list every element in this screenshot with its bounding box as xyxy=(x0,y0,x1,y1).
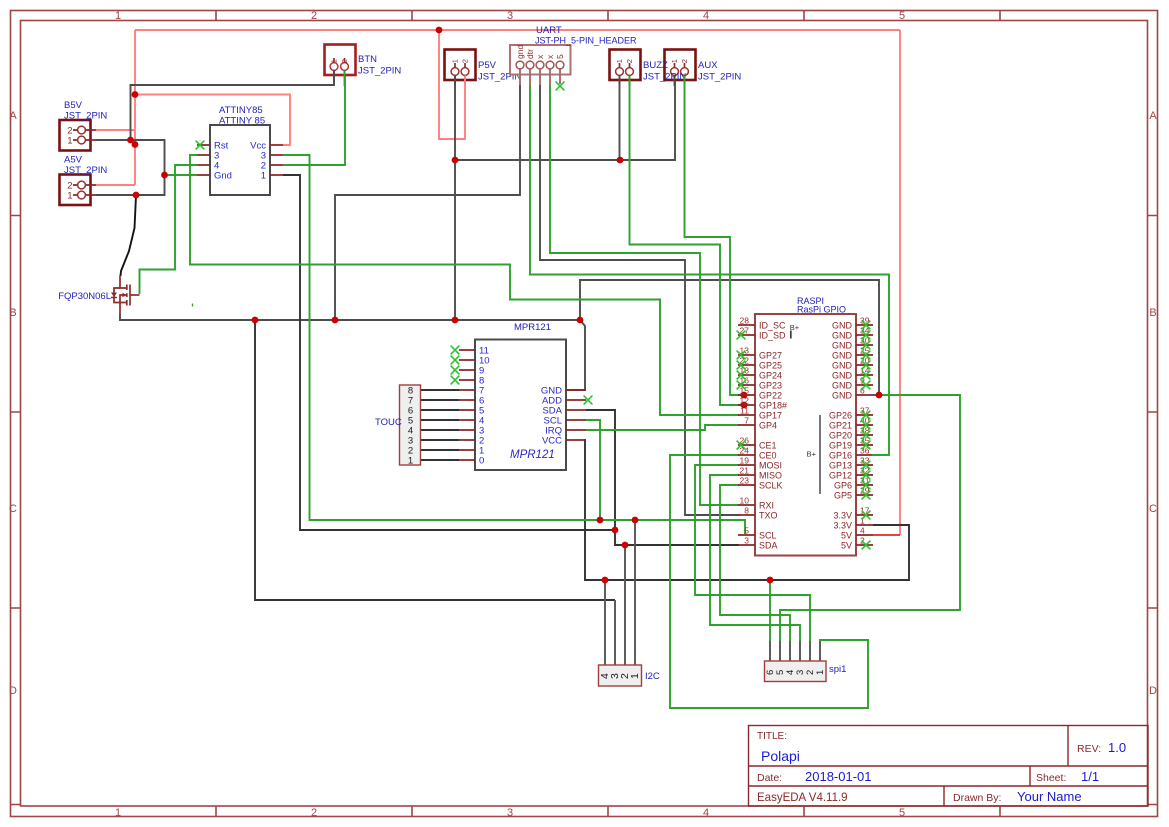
svg-text:GP22: GP22 xyxy=(759,391,782,401)
svg-text:1: 1 xyxy=(115,10,121,22)
net flag B+ lower xyxy=(807,415,820,494)
wire I2C pin3 vertical xyxy=(614,600,616,665)
svg-text:SCL: SCL xyxy=(759,531,777,541)
svg-text:B5V: B5V xyxy=(64,100,83,111)
wire ATTINY p4 to FQP gate xyxy=(140,165,198,294)
no-connect X at (741,375) xyxy=(737,371,746,380)
svg-text:SCLK: SCLK xyxy=(759,481,783,491)
svg-text:Date:: Date: xyxy=(757,772,782,784)
junction at (580,320) xyxy=(577,317,584,324)
svg-text:D: D xyxy=(1149,685,1157,697)
junction at (164.5,175) xyxy=(161,172,168,179)
no-connect X at (588,400) xyxy=(584,396,593,405)
wire BTN pin2 to ATTINY p2 xyxy=(283,76,345,165)
row ticks right xyxy=(1148,216,1158,805)
svg-text:GND: GND xyxy=(832,351,853,361)
wire CE0 to spi1 pin1 xyxy=(670,455,868,708)
row ticks left xyxy=(11,216,21,805)
WIRES-PINGRAY xyxy=(605,520,820,665)
svg-text:SDA: SDA xyxy=(759,541,778,551)
wire MPR VCC to 3V3 rail xyxy=(585,440,909,580)
svg-text:MOSI: MOSI xyxy=(759,461,782,471)
svg-text:Drawn By:: Drawn By: xyxy=(953,792,1001,804)
svg-text:1: 1 xyxy=(330,59,339,63)
svg-text:8: 8 xyxy=(744,506,749,516)
net flag B+ upper xyxy=(790,323,800,339)
right stubs xyxy=(856,325,873,545)
no-connect X at (866,375) xyxy=(862,371,871,380)
junction at (620,160) xyxy=(617,157,624,164)
svg-text:D: D xyxy=(9,685,17,697)
no-connect X at (866,415) xyxy=(862,411,871,420)
wire gnd link up-right xyxy=(580,280,879,395)
junction at (744,405) xyxy=(741,402,748,409)
wire ATTINY p3L to GP17 xyxy=(190,155,739,415)
WIRES-DARK xyxy=(121,175,910,600)
svg-text:TOUC: TOUC xyxy=(375,417,402,428)
svg-text:ATTINY 85: ATTINY 85 xyxy=(219,116,265,127)
svg-text:GND: GND xyxy=(832,371,853,381)
no-connect X at (455,380) xyxy=(451,376,460,385)
svg-text:5V: 5V xyxy=(841,541,852,551)
svg-text:JST_2PIN: JST_2PIN xyxy=(358,66,401,77)
svg-text:2: 2 xyxy=(625,59,634,63)
svg-text:5: 5 xyxy=(899,10,905,22)
svg-text:1: 1 xyxy=(261,171,266,182)
svg-text:RasPi GPIO: RasPi GPIO xyxy=(797,305,846,315)
svg-text:GP19: GP19 xyxy=(829,441,852,451)
no-connect X at (741,355) xyxy=(737,351,746,360)
no-connect X at (866,515) xyxy=(862,511,871,520)
connector I2C xyxy=(599,665,660,686)
no-connect X at (455,350) xyxy=(451,346,460,355)
svg-text:I2C: I2C xyxy=(645,671,660,682)
svg-text:Sheet:: Sheet: xyxy=(1036,772,1066,784)
wire BUZZ pin2 to GP18 xyxy=(630,81,745,405)
wire I2C pin4 vertical xyxy=(604,580,606,665)
svg-text:JST_2PIN: JST_2PIN xyxy=(64,165,107,176)
junction at (455,320) xyxy=(452,317,459,324)
wire MPR SDA net xyxy=(586,410,739,545)
connector B5V JST_2PIN xyxy=(60,100,108,151)
junction at (635,520) xyxy=(632,517,639,524)
no-connect X at (866,385) xyxy=(862,381,871,390)
svg-text:JST-PH_5-PIN_HEADER: JST-PH_5-PIN_HEADER xyxy=(535,36,637,46)
junction at (744,395) xyxy=(741,392,748,399)
svg-text:EasyEDA V4.11.9: EasyEDA V4.11.9 xyxy=(757,792,848,804)
svg-text:3: 3 xyxy=(744,536,749,546)
svg-text:2018-01-01: 2018-01-01 xyxy=(805,769,872,784)
wire 5V top rail xyxy=(135,29,900,31)
svg-text:RXI: RXI xyxy=(759,501,774,511)
wire P5V pin2 xyxy=(439,30,465,139)
no-connect X at (741,445) xyxy=(737,441,746,450)
connector P5V JST_2PIN xyxy=(445,50,522,83)
no-connect X at (741,335) xyxy=(737,331,746,340)
frame row letters left xyxy=(9,110,17,697)
svg-text:GP20: GP20 xyxy=(829,431,852,441)
no-connect X at (866,495) xyxy=(862,491,871,500)
svg-text:5: 5 xyxy=(744,526,749,536)
no-connect X at (866,485) xyxy=(862,481,871,490)
transistor Q1 FQP30N06L xyxy=(114,276,140,315)
svg-text:GP5: GP5 xyxy=(834,491,852,501)
svg-text:TITLE:: TITLE: xyxy=(757,731,787,742)
connector A5V JST_2PIN xyxy=(60,155,108,206)
svg-text:5V: 5V xyxy=(841,531,852,541)
IC U1 ATTINY85 xyxy=(197,105,283,195)
junction at (605,580) xyxy=(602,577,609,584)
no-connect X at (866,365) xyxy=(862,361,871,370)
junction at (770,580) xyxy=(767,577,774,584)
connector TOUC xyxy=(375,385,421,467)
svg-text:BTN: BTN xyxy=(358,54,377,65)
svg-text:GND: GND xyxy=(832,341,853,351)
svg-text:B+: B+ xyxy=(807,450,817,459)
junction at (136,195) xyxy=(133,192,140,199)
connector BTN JST_2PIN xyxy=(325,45,402,77)
svg-text:1: 1 xyxy=(615,59,624,63)
wire UART dtr to GP16 xyxy=(530,85,889,455)
wire BUZZ pin1 xyxy=(619,81,621,160)
wire SCLK to spi1 pin4 xyxy=(720,485,790,641)
wire 5V left drop to A5V xyxy=(134,30,136,185)
no-connect X at (866,475) xyxy=(862,471,871,480)
svg-text:3.3V: 3.3V xyxy=(833,521,852,531)
svg-text:GP6: GP6 xyxy=(834,481,852,491)
svg-text:1: 1 xyxy=(115,807,121,819)
left pin numbers xyxy=(740,316,750,546)
svg-text:5: 5 xyxy=(899,807,905,819)
svg-text:A: A xyxy=(9,110,17,122)
svg-text:JST_2PIN: JST_2PIN xyxy=(698,72,741,83)
frame column numbers top xyxy=(115,10,905,22)
WIRES-SALMON xyxy=(96,30,900,535)
svg-text:C: C xyxy=(1149,503,1157,515)
junction at (625,545) xyxy=(622,542,629,549)
svg-text:CE1: CE1 xyxy=(759,441,777,451)
left pin names xyxy=(759,321,787,551)
svg-text:GND: GND xyxy=(832,391,853,401)
wire BTN pin1 xyxy=(131,76,335,140)
svg-text:3.3V: 3.3V xyxy=(833,511,852,521)
no-connect X at (866,345) xyxy=(862,341,871,350)
junction at (135,144.5) xyxy=(132,141,139,148)
left stubs xyxy=(738,325,755,545)
svg-text:UART: UART xyxy=(536,25,562,36)
svg-text:MPR121: MPR121 xyxy=(514,322,551,333)
no-connect X at (866,435) xyxy=(862,431,871,440)
wire B5V pin1 xyxy=(96,140,165,195)
svg-text:BUZZ: BUZZ xyxy=(643,60,668,71)
wire B5V pin2 xyxy=(96,129,135,131)
wire RasPi 5V pin4 stub link xyxy=(873,534,900,536)
connector AUX JST_2PIN xyxy=(665,50,696,82)
wire MPR IRQ to GP4 xyxy=(586,425,739,430)
no-connect X at (866,355) xyxy=(862,351,871,360)
wire TOUC to MPR pins xyxy=(421,390,459,460)
wire AUX pin2 to GP22 xyxy=(685,81,745,395)
connector BUZZ JST_2PIN xyxy=(610,50,641,82)
svg-text:2: 2 xyxy=(311,807,317,819)
wire I2C pin2 vertical xyxy=(624,545,626,665)
svg-text:0: 0 xyxy=(479,456,484,467)
svg-text:5: 5 xyxy=(555,54,565,59)
wire I2C pin1 vertical xyxy=(634,520,636,665)
svg-text:7: 7 xyxy=(744,416,749,426)
no-connect X flags xyxy=(196,82,871,550)
no-connect X at (741,365) xyxy=(737,361,746,370)
wire gnd2 to I2C pin3 xyxy=(255,320,615,600)
svg-text:B: B xyxy=(9,307,16,319)
junction at (130.5,140) xyxy=(127,137,134,144)
wire RasPi GND6 stub link xyxy=(872,394,879,396)
connector spi1 xyxy=(765,661,847,682)
svg-text:GP24: GP24 xyxy=(759,371,782,381)
wire MPR SCL xyxy=(586,420,600,520)
svg-text:ID_SD: ID_SD xyxy=(759,331,786,341)
svg-text:spi1: spi1 xyxy=(829,664,846,675)
junction at (439,30) xyxy=(436,27,443,34)
wire ATTINY p3R SCL-link xyxy=(283,155,745,534)
svg-text:REV:: REV: xyxy=(1077,743,1101,755)
svg-text:P5V: P5V xyxy=(478,60,497,71)
wire UART gnd xyxy=(335,85,520,320)
svg-text:19: 19 xyxy=(740,456,750,466)
svg-text:AUX: AUX xyxy=(698,60,718,71)
svg-text:23: 23 xyxy=(740,476,750,486)
column ticks bottom xyxy=(216,806,1000,817)
svg-text:1/1: 1/1 xyxy=(1081,769,1099,784)
svg-text:15: 15 xyxy=(740,386,750,396)
title block xyxy=(749,726,1149,807)
svg-text:Gnd: Gnd xyxy=(214,171,232,182)
no-connect X at (200,145) xyxy=(196,141,205,150)
WIRES-GRAY xyxy=(96,76,879,515)
no-connect X at (866,465) xyxy=(862,461,871,470)
junction at (600,520) xyxy=(597,517,604,524)
svg-text:JST_2PIN: JST_2PIN xyxy=(643,72,686,83)
svg-text:TXO: TXO xyxy=(759,511,778,521)
no-connect X at (455,360) xyxy=(451,356,460,365)
no-connect X at (866,335) xyxy=(862,331,871,340)
IC U3 RASPI RasPi GPIO xyxy=(738,296,873,556)
svg-text:GP13: GP13 xyxy=(829,461,852,471)
svg-text:4: 4 xyxy=(703,807,709,819)
column ticks top xyxy=(216,11,1000,21)
svg-text:GP21: GP21 xyxy=(829,421,852,431)
svg-text:11: 11 xyxy=(740,406,749,416)
no-connect X at (866,425) xyxy=(862,421,871,430)
no-connect X at (560,86) xyxy=(556,82,565,91)
svg-text:dtr: dtr xyxy=(525,49,535,59)
wire spi1 pin stubs xyxy=(770,641,820,661)
svg-text:B+: B+ xyxy=(790,323,800,332)
svg-text:12: 12 xyxy=(740,396,750,406)
wire pin links over JST borders xyxy=(334,71,685,87)
svg-text:3: 3 xyxy=(507,807,513,819)
svg-text:MPR121: MPR121 xyxy=(510,449,555,461)
svg-text:GP23: GP23 xyxy=(759,381,782,391)
connector UART JST-PH 5-pin header xyxy=(510,25,637,85)
IC U2 MPR121 xyxy=(459,322,586,470)
wire GND to spi1 pin5 xyxy=(780,395,960,641)
wire UART x1 to TXO xyxy=(540,85,739,515)
svg-text:1: 1 xyxy=(629,673,641,679)
svg-text:gnd: gnd xyxy=(515,45,525,59)
svg-text:GP26: GP26 xyxy=(829,411,852,421)
no-connect X at (866,445) xyxy=(862,441,871,450)
svg-text:Polapi: Polapi xyxy=(761,748,800,764)
wire MOSI to spi1 pin2 xyxy=(695,465,810,641)
junction at (255,320) xyxy=(252,317,259,324)
svg-text:VCC: VCC xyxy=(542,436,562,447)
svg-text:1: 1 xyxy=(67,191,72,202)
svg-text:GP16: GP16 xyxy=(829,451,852,461)
junction at (455,160) xyxy=(452,157,459,164)
wire UART x2 to RXI xyxy=(550,85,739,505)
wire ATTINY Gnd xyxy=(165,174,198,176)
svg-text:GP18#: GP18# xyxy=(759,401,787,411)
svg-text:FQP30N06L: FQP30N06L xyxy=(58,291,111,302)
svg-text:1: 1 xyxy=(408,456,413,467)
wire MISO to spi1 pin3 xyxy=(710,475,800,641)
wire ATTINY pin1 SDA-link xyxy=(283,175,615,530)
wire spi1 pin6 drop xyxy=(769,580,771,641)
no-connect X at (866,545) xyxy=(862,541,871,550)
svg-text:28: 28 xyxy=(740,316,750,326)
right pin numbers xyxy=(860,316,870,546)
svg-text:1: 1 xyxy=(67,136,72,147)
frame column numbers bottom xyxy=(115,807,905,819)
wire P5V pin1 xyxy=(454,81,456,320)
svg-text:10: 10 xyxy=(740,496,750,506)
svg-text:2: 2 xyxy=(680,59,689,63)
svg-text:GP17: GP17 xyxy=(759,411,782,421)
svg-text:1: 1 xyxy=(670,59,679,63)
svg-text:B: B xyxy=(1149,307,1156,319)
svg-text:4: 4 xyxy=(860,526,865,536)
svg-text:ATTINY85: ATTINY85 xyxy=(219,105,263,116)
svg-text:21: 21 xyxy=(740,466,750,476)
svg-text:GND: GND xyxy=(832,321,853,331)
svg-text:1.0: 1.0 xyxy=(1108,740,1126,755)
svg-text:1: 1 xyxy=(451,59,460,63)
svg-text:GND: GND xyxy=(832,381,853,391)
svg-text:C: C xyxy=(9,503,17,515)
no-connect X at (455,370) xyxy=(451,366,460,375)
wire gnd bus xyxy=(120,314,580,320)
junction at (135,94.5) xyxy=(132,91,139,98)
wire gnd jog to MPR GND xyxy=(567,320,585,390)
svg-text:2: 2 xyxy=(340,59,349,63)
svg-text:GP12: GP12 xyxy=(829,471,852,481)
svg-text:GP27: GP27 xyxy=(759,351,782,361)
svg-text:3: 3 xyxy=(507,10,513,22)
svg-text:24: 24 xyxy=(740,446,750,456)
right pin names xyxy=(829,321,853,551)
svg-text:ID_SC: ID_SC xyxy=(759,321,786,331)
no-connect X at (741,385) xyxy=(737,381,746,390)
svg-text:MISO: MISO xyxy=(759,471,782,481)
wire P5V-BUZZ-AUX y160 xyxy=(455,81,675,160)
svg-text:GP25: GP25 xyxy=(759,361,782,371)
svg-text:4: 4 xyxy=(703,10,709,22)
wire A5V pin1 to FQP drain xyxy=(121,196,137,276)
junction at (879,395) xyxy=(876,392,883,399)
svg-text:2: 2 xyxy=(461,59,470,63)
svg-text:CE0: CE0 xyxy=(759,451,777,461)
wire RasPi 5V pin4 drop xyxy=(899,30,901,535)
junction at (335,320) xyxy=(332,317,339,324)
frame row letters right xyxy=(1149,110,1157,697)
wire ATTINY Vcc xyxy=(135,95,290,146)
svg-text:1: 1 xyxy=(815,670,826,675)
no-connect X at (866,325) xyxy=(862,321,871,330)
svg-text:A: A xyxy=(1149,110,1157,122)
svg-text:GP4: GP4 xyxy=(759,421,777,431)
svg-text:JST_2PIN: JST_2PIN xyxy=(64,111,107,122)
WIRES-GREEN xyxy=(140,76,961,708)
svg-text:Your Name: Your Name xyxy=(1017,789,1082,804)
svg-text:GND: GND xyxy=(832,331,853,341)
junction at (615,530) xyxy=(612,527,619,534)
svg-text:2: 2 xyxy=(311,10,317,22)
svg-text:GND: GND xyxy=(832,361,853,371)
wire A5V pin2 xyxy=(96,184,135,186)
svg-text:A5V: A5V xyxy=(64,155,83,166)
